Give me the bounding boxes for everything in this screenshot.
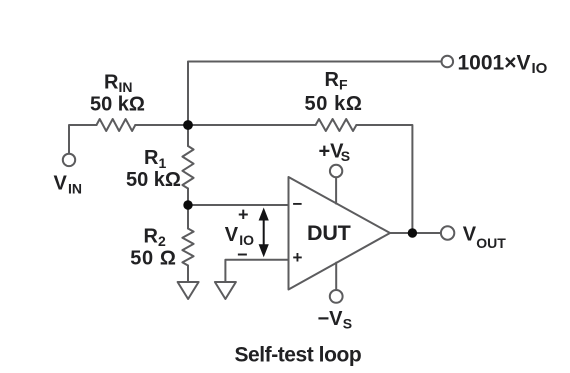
- resistor RF zigzag: [316, 119, 357, 131]
- resistor RIN zigzag: [97, 119, 136, 131]
- wire +VS terminal to op-amp top: [335, 177, 337, 203]
- terminal -VS circle: [330, 290, 343, 303]
- label VIO plus sign: [238, 205, 249, 225]
- label +VS: [319, 140, 351, 164]
- label op-amp inverting input minus: [293, 195, 303, 214]
- label VIO minus sign: [237, 245, 248, 265]
- svg-text:Self-test loop: Self-test loop: [235, 344, 362, 367]
- wire noninverting input to ground: [225, 260, 288, 282]
- svg-text:IN: IN: [68, 180, 82, 196]
- wire node A to resistor RF: [188, 124, 316, 126]
- terminal 1001xVIO circle: [442, 56, 454, 68]
- svg-text:−: −: [293, 195, 303, 214]
- svg-text:V: V: [54, 173, 68, 195]
- svg-text:50 kΩ: 50 kΩ: [90, 94, 145, 116]
- caption Self-test loop: [235, 344, 362, 367]
- wire R2 to ground: [187, 266, 189, 282]
- label DUT: [307, 221, 351, 245]
- ground symbol under R2: [178, 282, 199, 299]
- svg-text:+: +: [238, 205, 249, 225]
- node A junction dot: [183, 120, 193, 130]
- label RF value 50 kOhm: [305, 93, 363, 115]
- svg-text:1001×V: 1001×V: [458, 51, 531, 74]
- label R2 value 50 Ohm: [130, 247, 176, 269]
- svg-text:R: R: [325, 69, 340, 91]
- terminal +VS circle: [330, 165, 342, 177]
- label -VS: [318, 308, 353, 332]
- svg-text:R: R: [144, 147, 159, 169]
- label VIO: [225, 224, 254, 248]
- svg-text:50 kΩ: 50 kΩ: [126, 169, 181, 191]
- label 1001xVIO: [458, 51, 548, 77]
- wire R1 to node B: [187, 189, 189, 206]
- resistor R2 zigzag: [182, 229, 193, 266]
- label R1: [144, 147, 167, 171]
- svg-text:V: V: [463, 223, 477, 245]
- svg-text:S: S: [343, 315, 352, 331]
- svg-text:IN: IN: [119, 79, 133, 95]
- op-amp DUT triangle: [289, 177, 391, 290]
- terminal VOUT circle: [441, 226, 454, 239]
- label RIN value 50 kOhm: [90, 94, 145, 116]
- svg-text:−V: −V: [318, 308, 344, 330]
- wire node B to resistor R2: [187, 205, 189, 229]
- wire op-amp output to VOUT terminal: [390, 232, 441, 234]
- svg-text:V: V: [225, 224, 239, 246]
- wire VIN to resistor RIN: [69, 125, 97, 153]
- label RIN: [104, 72, 133, 95]
- node B junction dot: [183, 200, 192, 209]
- ground symbol under noninverting network: [215, 282, 236, 299]
- svg-text:50 Ω: 50 Ω: [130, 247, 176, 269]
- svg-text:R: R: [144, 225, 159, 247]
- wire op-amp bottom to -VS terminal: [335, 263, 337, 290]
- svg-text:OUT: OUT: [476, 235, 506, 251]
- label op-amp noninverting input plus: [293, 248, 303, 267]
- svg-text:+: +: [293, 248, 303, 267]
- label VIN: [54, 173, 83, 197]
- svg-text:F: F: [339, 77, 348, 93]
- wire RIN to node A: [135, 124, 188, 126]
- svg-text:IO: IO: [532, 60, 548, 77]
- label VOUT: [463, 223, 507, 251]
- wire top horizontal from node A to 1001xVIO terminal: [188, 62, 441, 126]
- svg-text:50 kΩ: 50 kΩ: [305, 93, 363, 115]
- label RF: [325, 69, 349, 93]
- label R2: [144, 225, 167, 249]
- svg-text:DUT: DUT: [307, 221, 351, 245]
- resistor R1 zigzag: [182, 146, 193, 189]
- VIO measurement double arrow: [259, 208, 269, 258]
- wire node B to inverting input: [188, 204, 289, 206]
- label R1 value 50 kOhm: [126, 169, 181, 191]
- terminal VIN circle: [63, 154, 75, 166]
- svg-text:−: −: [237, 245, 248, 265]
- svg-text:R: R: [104, 72, 119, 94]
- wire node A to resistor R1: [187, 125, 189, 146]
- node C junction dot: [408, 228, 417, 237]
- svg-text:S: S: [341, 148, 350, 164]
- wire RF to feedback corner down to node C: [356, 125, 412, 233]
